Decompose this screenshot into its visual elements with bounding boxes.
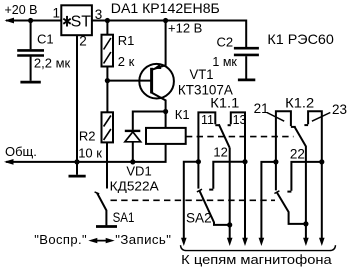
svg-text:КД522А: КД522А [110, 179, 159, 194]
svg-text:SA2: SA2 [186, 209, 212, 225]
svg-text:К1.1: К1.1 [210, 95, 239, 110]
svg-text:SA1: SA1 [113, 209, 135, 225]
svg-text:+12 В: +12 В [168, 20, 202, 35]
svg-text:К1 РЭС60: К1 РЭС60 [267, 31, 334, 47]
svg-text:2,2 мк: 2,2 мк [34, 55, 71, 70]
svg-text:R2: R2 [79, 128, 96, 143]
svg-text:13: 13 [233, 113, 247, 127]
svg-text:VD1: VD1 [126, 164, 151, 179]
svg-text:2 к: 2 к [118, 54, 135, 69]
svg-text:К1.2: К1.2 [285, 95, 314, 110]
svg-text:VT1: VT1 [190, 67, 214, 82]
svg-text:23: 23 [332, 102, 347, 117]
svg-text:10 к: 10 к [78, 145, 102, 160]
svg-text:12: 12 [213, 144, 227, 159]
svg-text:C2: C2 [217, 34, 234, 49]
svg-text:К1: К1 [175, 107, 190, 122]
svg-text:C1: C1 [37, 31, 54, 46]
svg-text:DA1 КР142ЕН8Б: DA1 КР142ЕН8Б [111, 0, 220, 16]
svg-text:"Воспр.": "Воспр." [34, 232, 87, 247]
svg-text:"Запись": "Запись" [115, 232, 171, 247]
svg-text:К цепям магнитофона: К цепям магнитофона [181, 252, 332, 267]
svg-text:21: 21 [254, 101, 269, 116]
svg-text:ST: ST [71, 14, 92, 31]
svg-text:1 мк: 1 мк [212, 55, 237, 69]
svg-text:R1: R1 [118, 33, 135, 48]
svg-text:1: 1 [53, 6, 61, 21]
svg-text:+20 В: +20 В [5, 3, 38, 17]
svg-text:2: 2 [79, 33, 87, 48]
svg-text:3: 3 [95, 7, 103, 22]
svg-text:22: 22 [290, 147, 305, 162]
svg-text:11: 11 [201, 113, 214, 127]
svg-text:Общ.: Общ. [5, 144, 37, 159]
